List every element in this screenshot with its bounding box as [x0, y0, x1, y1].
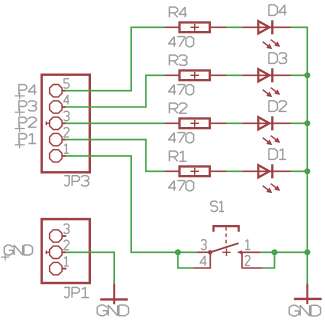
- wire net P3 (JP3 pin4 to R3): [66, 75, 164, 107]
- wire switch under-loop right: [263, 252, 275, 268]
- switch S1 dashed link: [225, 227, 227, 248]
- net label GND: [4, 245, 32, 255]
- connector JP1: [42, 219, 90, 283]
- JP3 pin 2: [50, 133, 66, 145]
- label R2 value 470: [169, 133, 194, 143]
- label D1 name: [269, 149, 286, 160]
- wire D1 cathode to rail: [291, 170, 308, 172]
- resistor R3: [164, 70, 226, 80]
- switch S1 right contact arrow: [237, 250, 242, 254]
- wire R1 to D1: [226, 170, 242, 172]
- label R4 value 470: [169, 37, 194, 47]
- label JP3: [64, 176, 88, 186]
- JP3 pin 3: [50, 117, 66, 129]
- junction on rail: [304, 168, 310, 174]
- wire R4 to D4: [226, 26, 242, 28]
- junction on rail: [304, 72, 310, 78]
- wire net P4 (JP3 pin5 to R4): [66, 27, 164, 90]
- net label P2: [19, 117, 37, 127]
- resistor R1: [164, 166, 226, 176]
- label R4 name: [169, 7, 187, 17]
- JP3 pin 1: [50, 150, 66, 162]
- switch S1 left contact dot: [208, 250, 212, 254]
- wire right GND rail: [306, 27, 308, 284]
- resistor R2: [164, 118, 226, 128]
- wire D2 cathode to rail: [291, 122, 308, 124]
- resistor R4: [164, 22, 226, 32]
- label JP1: [64, 287, 89, 297]
- JP1 pin 2: [50, 246, 66, 258]
- switch S1 pin 2 lead: [242, 253, 263, 268]
- LED D1: [242, 164, 291, 193]
- wire JP3 pin1 to switch S1: [66, 156, 196, 252]
- wire D4 cathode to rail: [291, 26, 308, 28]
- wire net P1 (JP3 pin2 to R1): [66, 140, 164, 172]
- wire switch under-loop left: [178, 252, 194, 268]
- junction rail at switch row: [304, 249, 310, 255]
- JP3 pin 4: [50, 101, 66, 113]
- switch S1 lever: [210, 243, 239, 252]
- wire D3 cathode to rail: [291, 74, 308, 76]
- label GND right: [289, 305, 320, 316]
- wire GND net JP1 pin2: [66, 252, 114, 284]
- ground symbol left: [100, 284, 128, 305]
- LED D2: [242, 116, 291, 145]
- wire net P2 (JP3 pin3 to R2): [66, 122, 164, 124]
- label R2 name: [169, 103, 187, 113]
- label R3 name: [169, 55, 187, 65]
- label R1 value 470: [169, 181, 194, 191]
- LED D3: [242, 68, 291, 97]
- switch S1 pin 4 lead: [194, 253, 211, 268]
- label R1 name: [169, 151, 186, 161]
- ground symbol right: [294, 284, 322, 304]
- switch S1 pin 1 lead: [241, 251, 261, 253]
- switch S1 pin 3 lead: [196, 251, 210, 253]
- net label P4: [19, 85, 37, 95]
- switch S1 origin cross: [222, 249, 230, 256]
- net label P3: [19, 101, 37, 111]
- label GND left: [97, 305, 128, 316]
- wire R2 to D2: [226, 122, 242, 124]
- junction switch right loop: [272, 249, 278, 255]
- label D3 name: [269, 53, 287, 64]
- switch S1 actuator bracket: [214, 226, 239, 232]
- wire R3 to D3: [226, 74, 242, 76]
- JP1 pin 3: [50, 230, 67, 242]
- label D4 name: [269, 5, 287, 16]
- JP3 origin cross: [46, 122, 49, 126]
- JP3 pin 5: [50, 85, 66, 97]
- JP1 pin 1: [50, 262, 67, 274]
- connector JP3: [42, 75, 90, 173]
- net label P1: [19, 134, 36, 144]
- junction on rail: [304, 120, 310, 126]
- junction at switch left: [175, 249, 181, 255]
- LED D4: [242, 20, 291, 49]
- JP1 origin cross: [46, 251, 49, 255]
- label S1 name: [211, 201, 225, 211]
- label D2 name: [269, 101, 287, 112]
- wire switch right to rail: [261, 251, 308, 253]
- switch S1 pin numbers: [201, 240, 206, 250]
- label R3 value 470: [169, 85, 194, 95]
